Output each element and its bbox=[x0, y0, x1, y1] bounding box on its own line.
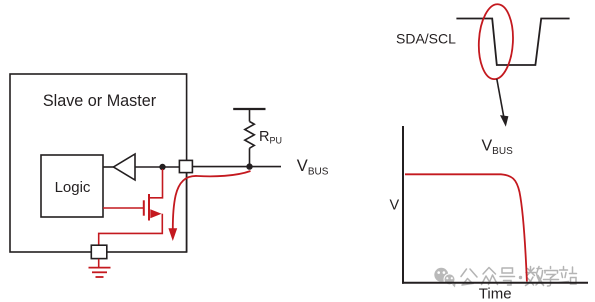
svg-text:V: V bbox=[390, 198, 400, 214]
wire buffer to pad bbox=[135, 166, 180, 168]
axis Y bbox=[402, 126, 404, 284]
power rail bbox=[233, 108, 265, 110]
highlight ellipse bbox=[477, 3, 515, 80]
current flow arrow bbox=[168, 171, 250, 241]
wire logic to buffer bbox=[103, 166, 114, 168]
slave-or-master box bbox=[10, 74, 187, 252]
arrow ellipse to VBUS bbox=[497, 79, 509, 127]
gong bbox=[461, 269, 477, 277]
wire rail to resistor bbox=[249, 109, 251, 122]
logic block bbox=[41, 155, 103, 217]
svg-text:VBUS: VBUS bbox=[297, 157, 329, 178]
hao bbox=[502, 268, 513, 273]
dot bbox=[519, 276, 522, 279]
transistor Q1 source arrow bbox=[150, 209, 161, 218]
ground bbox=[89, 268, 111, 277]
watermark text bbox=[461, 267, 577, 287]
wire box right edge through pad bbox=[186, 172, 188, 252]
transistor Q1 drain wire bbox=[149, 169, 163, 198]
node SDA junction bbox=[159, 164, 165, 170]
waveform SDA/SCL bbox=[456, 19, 569, 66]
svg-text:RPU: RPU bbox=[259, 129, 282, 146]
transistor Q1 channel bar bbox=[148, 194, 150, 221]
axis X bbox=[402, 282, 588, 284]
svg-text:Logic: Logic bbox=[55, 179, 91, 196]
wire bus line bbox=[192, 166, 281, 168]
pad SDA pin bbox=[179, 160, 192, 172]
transistor Q1 gate wire bbox=[103, 207, 144, 209]
watermark logo bbox=[434, 268, 455, 288]
resistor RPU bbox=[245, 122, 255, 149]
svg-text:SDA/SCL: SDA/SCL bbox=[396, 31, 456, 47]
zhong bbox=[483, 268, 496, 275]
buffer U1 bbox=[114, 154, 136, 180]
zi bbox=[545, 267, 558, 274]
wire resistor to bus bbox=[249, 148, 251, 166]
svg-text:Time: Time bbox=[479, 286, 512, 302]
svg-text:VBUS: VBUS bbox=[482, 138, 514, 158]
wire source to ground pad bbox=[99, 214, 163, 245]
svg-text:Slave or Master: Slave or Master bbox=[43, 92, 157, 110]
shu bbox=[526, 267, 536, 276]
transistor Q1 gate bar bbox=[143, 200, 145, 215]
pad ground pin bbox=[91, 245, 107, 258]
wire pad to ground bbox=[98, 259, 100, 268]
curve VBUS discharge bbox=[405, 174, 527, 281]
zhan bbox=[559, 267, 569, 283]
node resistor junction bbox=[246, 163, 252, 169]
